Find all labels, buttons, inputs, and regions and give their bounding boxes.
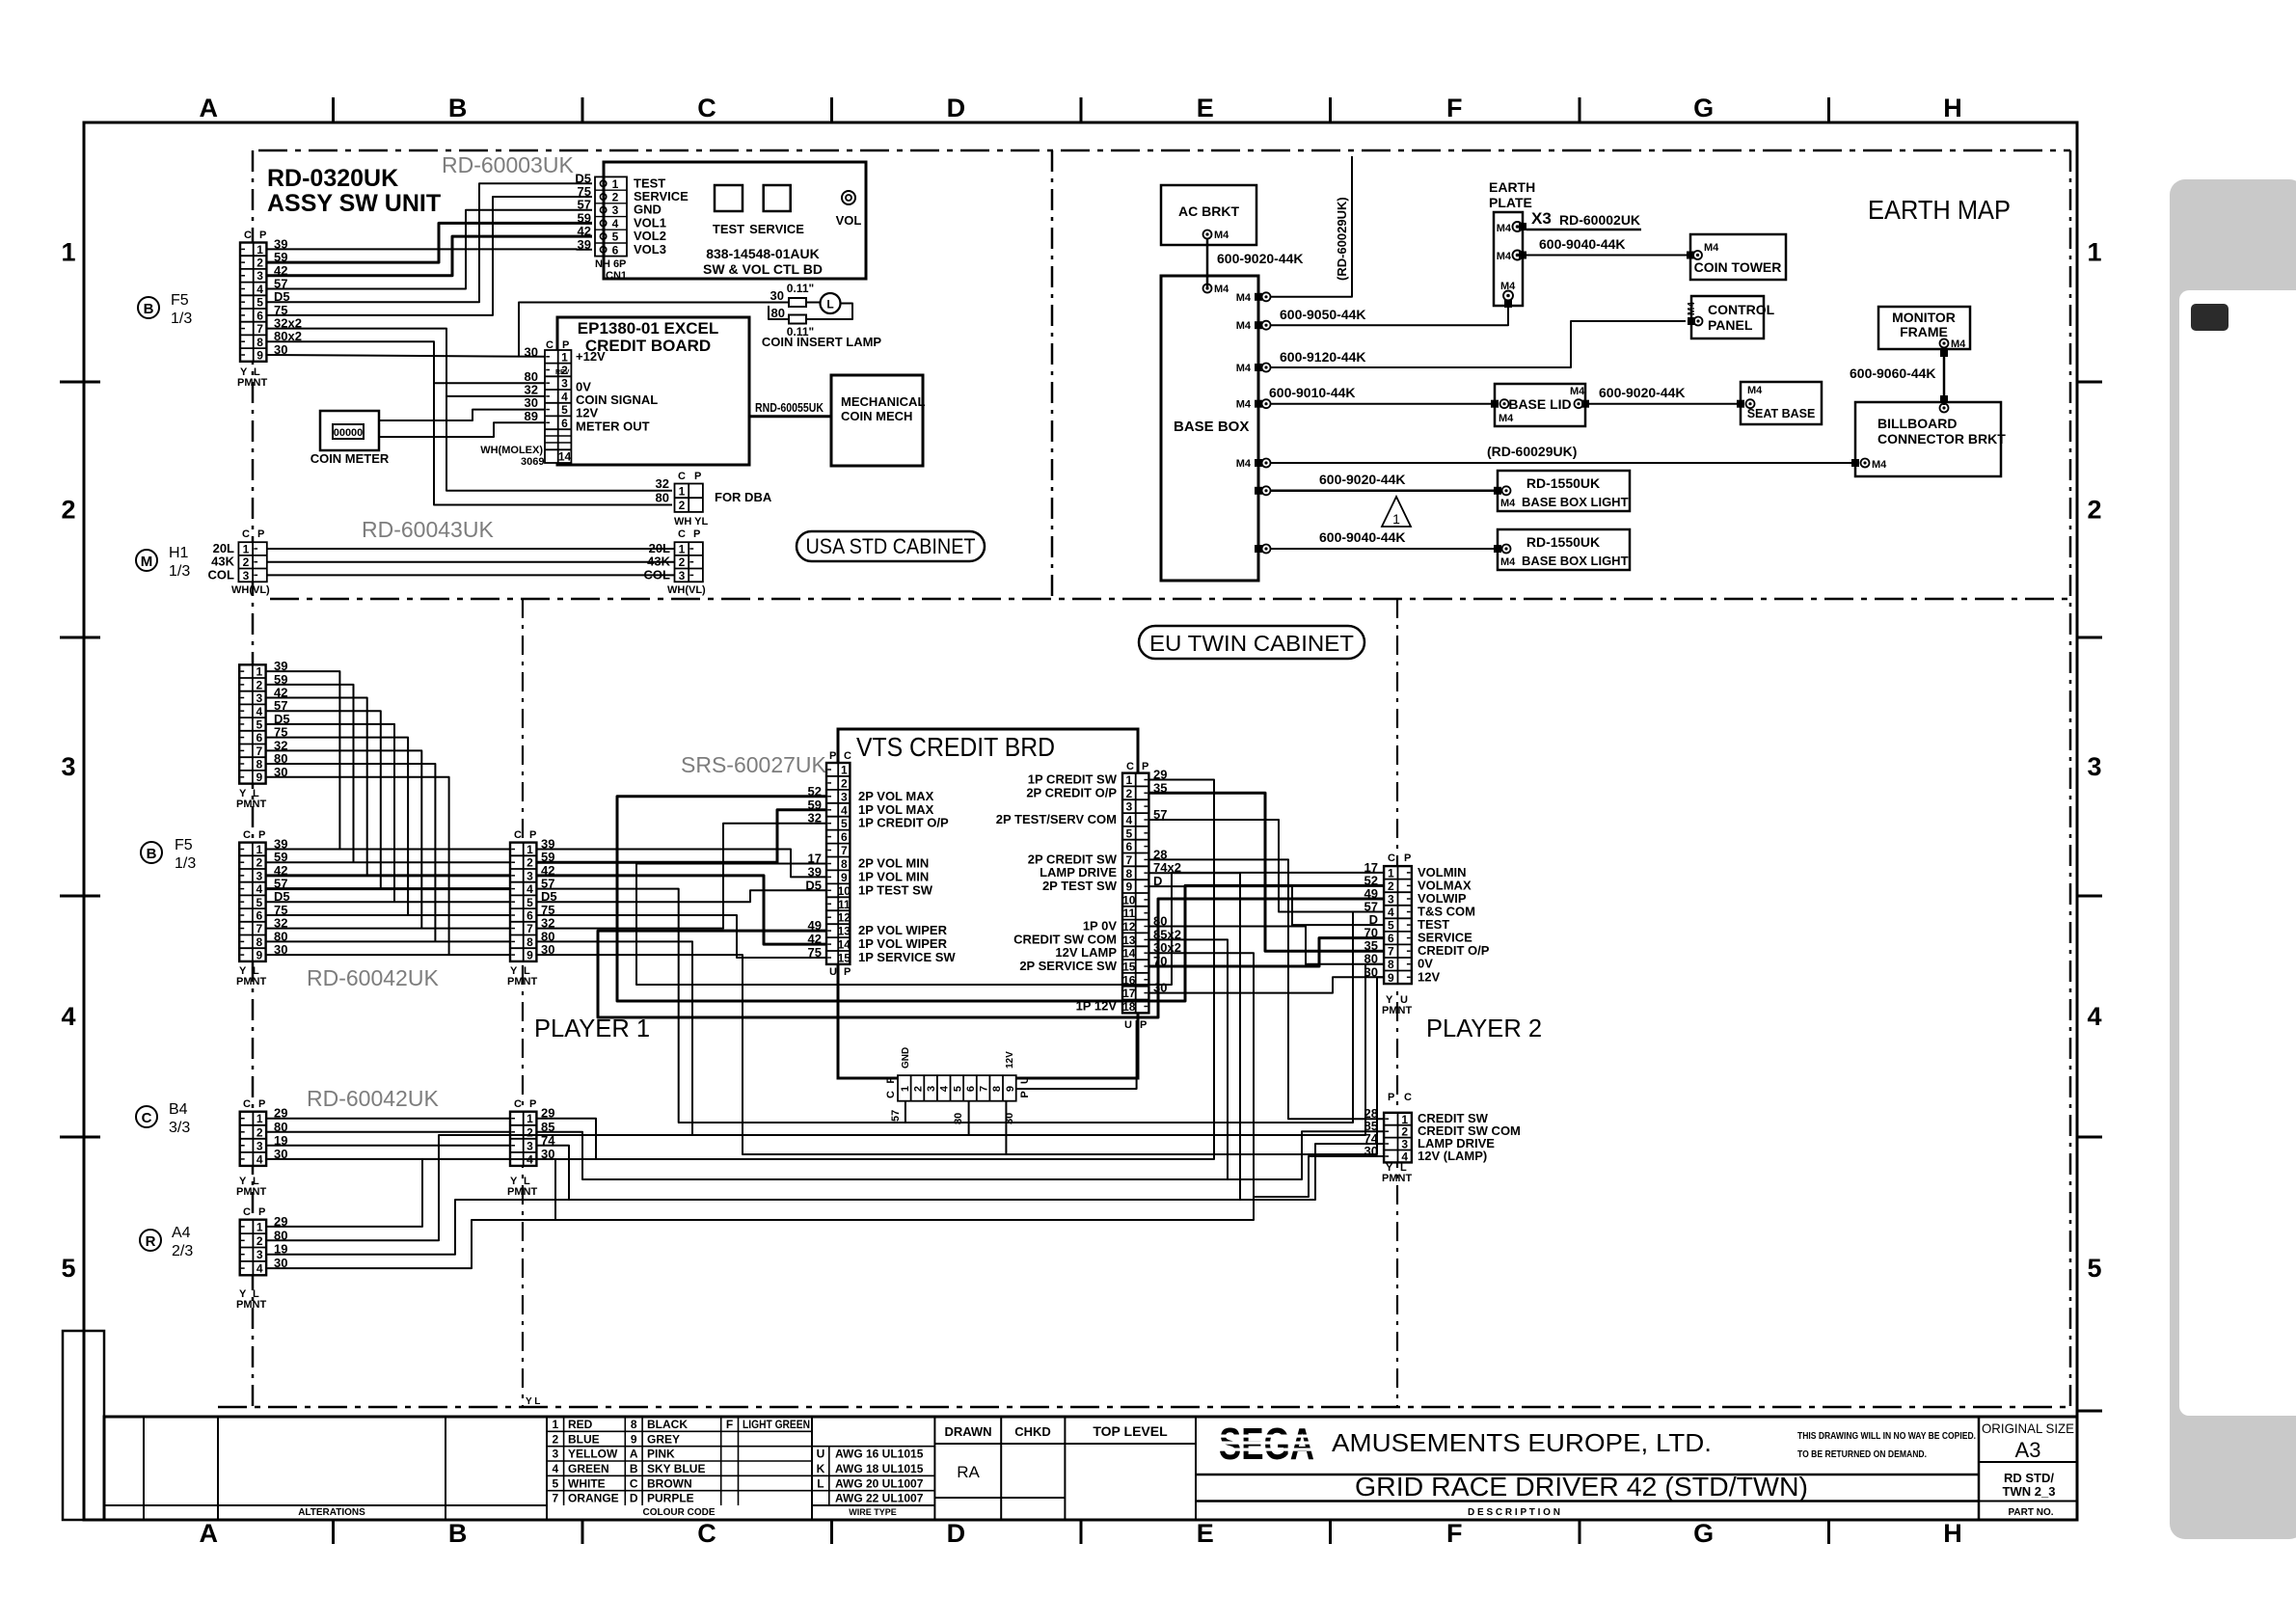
- label USA STD CABINET: [797, 531, 985, 561]
- svg-text:7: 7: [256, 744, 262, 758]
- svg-text:600-9020-44K: 600-9020-44K: [1599, 385, 1686, 400]
- svg-text:U: U: [1124, 1019, 1132, 1031]
- svg-text:H1: H1: [169, 545, 189, 561]
- svg-text:C: C: [1126, 761, 1134, 772]
- svg-text:FOR DBA: FOR DBA: [715, 490, 772, 504]
- svg-text:EU TWIN CABINET: EU TWIN CABINET: [1149, 631, 1354, 656]
- svg-text:4: 4: [561, 390, 568, 403]
- wire 600-9010-44K to base lid: [1270, 403, 1491, 405]
- svg-text:4: 4: [841, 803, 848, 817]
- wire harness row: [267, 901, 510, 903]
- M4 bolt 1 on earth plate: [1519, 223, 1526, 230]
- wire harness row: [267, 914, 510, 916]
- wire 42 mid to VTS left pin14: [536, 876, 826, 944]
- svg-text:YELLOW: YELLOW: [568, 1448, 618, 1461]
- wire 74 net: [536, 873, 1240, 1200]
- wire 28 net staircase: [1148, 859, 1384, 1119]
- wire 600-9120-44K to control panel: [1270, 321, 1686, 367]
- svg-text:15: 15: [1122, 961, 1136, 974]
- svg-text:2P SERVICE SW: 2P SERVICE SW: [1019, 959, 1117, 973]
- wire 600-9050-44K to earth plate: [1270, 302, 1508, 325]
- svg-text:M4: M4: [1499, 413, 1514, 424]
- svg-text:3: 3: [527, 1139, 533, 1152]
- wire 85 net: [536, 939, 1228, 1179]
- svg-text:17: 17: [1122, 987, 1136, 1000]
- svg-text:A: A: [630, 1448, 638, 1461]
- svg-text:G: G: [1693, 1519, 1714, 1548]
- svg-text:B: B: [144, 301, 154, 317]
- svg-text:RD STD/: RD STD/: [2004, 1471, 2054, 1485]
- wire 30 12V net long run: [536, 955, 1384, 1154]
- svg-text:9: 9: [1005, 1086, 1016, 1092]
- svg-text:8: 8: [256, 758, 262, 771]
- svg-text:3: 3: [561, 377, 568, 391]
- svg-text:1: 1: [61, 238, 75, 267]
- svg-text:METER OUT: METER OUT: [576, 419, 650, 433]
- title block outline: [104, 1417, 2077, 1520]
- svg-text:P: P: [529, 1098, 536, 1110]
- svg-text:2: 2: [257, 257, 263, 270]
- wire coin meter to EP1380.6: [379, 422, 545, 437]
- svg-text:1: 1: [257, 243, 263, 257]
- svg-text:B: B: [147, 846, 157, 862]
- svg-text:2: 2: [257, 1125, 263, 1139]
- M4 bolt 2 on earth plate: [1519, 252, 1526, 259]
- svg-text:M4: M4: [1500, 556, 1516, 568]
- box BASE BOX: [1161, 276, 1258, 581]
- svg-text:2P VOL MAX: 2P VOL MAX: [858, 789, 934, 803]
- svg-text:PART NO.: PART NO.: [2008, 1507, 2053, 1518]
- svg-text:C: C: [678, 471, 686, 482]
- svg-text:BASE BOX: BASE BOX: [1174, 419, 1249, 435]
- svg-text:RD-60003UK: RD-60003UK: [442, 152, 574, 177]
- svg-text:C: C: [514, 829, 522, 841]
- svg-text:TOP LEVEL: TOP LEVEL: [1093, 1423, 1168, 1439]
- svg-text:M4: M4: [1500, 281, 1516, 292]
- svg-text:600-9020-44K: 600-9020-44K: [1319, 472, 1406, 487]
- svg-text:1P CREDIT SW: 1P CREDIT SW: [1028, 772, 1118, 787]
- svg-text:COLOUR CODE: COLOUR CODE: [643, 1507, 716, 1518]
- svg-text:32: 32: [656, 476, 669, 491]
- svg-text:12V: 12V: [1005, 1051, 1015, 1069]
- svg-text:P: P: [1142, 761, 1148, 772]
- svg-text:M4: M4: [1236, 458, 1252, 470]
- wire type table: [933, 1417, 935, 1520]
- svg-text:1P CREDIT O/P: 1P CREDIT O/P: [858, 816, 949, 830]
- svg-text:8: 8: [527, 935, 533, 949]
- svg-text:5: 5: [527, 896, 533, 909]
- svg-text:P: P: [562, 339, 569, 351]
- reference bubble B F5 1/3 (EU): [141, 842, 162, 863]
- svg-text:P: P: [529, 829, 536, 841]
- svg-text:2: 2: [552, 1432, 558, 1446]
- svg-text:D: D: [947, 94, 966, 122]
- lamp L coin insert lamp: [821, 293, 841, 313]
- connector VTS right 18-pin: [1122, 773, 1148, 1014]
- svg-text:5: 5: [612, 230, 619, 244]
- wire upper harness fan: [267, 724, 394, 902]
- svg-text:PMNT: PMNT: [507, 976, 537, 988]
- svg-text:AWG 18 UL1015: AWG 18 UL1015: [835, 1462, 924, 1475]
- svg-text:AC BRKT: AC BRKT: [1178, 203, 1239, 219]
- reference bubble B F5 1/3: [138, 297, 159, 318]
- box CONTROL PANEL: [1691, 296, 1764, 338]
- connector CN1 NH 6P: [595, 176, 627, 256]
- svg-text:1: 1: [256, 665, 262, 679]
- svg-text:6: 6: [612, 243, 619, 257]
- title block left dividers: [143, 1417, 145, 1520]
- svg-text:C: C: [546, 339, 554, 351]
- svg-text:3: 3: [679, 569, 686, 582]
- svg-text:2: 2: [527, 856, 533, 870]
- svg-text:GREY: GREY: [647, 1432, 680, 1446]
- svg-text:7: 7: [979, 1086, 990, 1092]
- svg-text:12V: 12V: [1418, 969, 1440, 984]
- wire 12V/30 feed to coin insert lamp: [519, 303, 789, 357]
- svg-text:P: P: [258, 829, 265, 841]
- outer drawing frame: [84, 122, 2077, 1520]
- svg-text:BROWN: BROWN: [647, 1476, 692, 1490]
- svg-text:5: 5: [61, 1254, 75, 1283]
- player 1 boundary vertical x=542: [522, 599, 524, 1407]
- svg-text:5: 5: [561, 403, 568, 417]
- wire 80 net long run: [536, 941, 1384, 1135]
- box BASE LID: [1495, 384, 1585, 426]
- connector H1 left 3-pin: [238, 542, 266, 582]
- svg-text:4: 4: [552, 1462, 558, 1475]
- wire (RD-60029UK) to billboard: [1270, 462, 1851, 464]
- svg-text:3: 3: [243, 569, 250, 582]
- wire upper harness fan: [267, 764, 436, 941]
- region boundary dash-dot top (USA STD / EARTH MAP): [258, 149, 2070, 152]
- svg-text:M4: M4: [1687, 302, 1697, 315]
- svg-text:BLACK: BLACK: [647, 1418, 688, 1431]
- wire harness row: [267, 861, 510, 863]
- wire F5.6 to CN1: [267, 197, 593, 315]
- svg-text:00000: 00000: [334, 427, 364, 439]
- box RD-1550UK BASE BOX LIGHT 2: [1498, 529, 1630, 570]
- svg-text:P: P: [1404, 853, 1411, 864]
- svg-text:ORIGINAL SIZE: ORIGINAL SIZE: [1982, 1421, 2074, 1436]
- svg-text:80: 80: [656, 491, 669, 505]
- svg-text:1/3: 1/3: [169, 563, 190, 580]
- svg-text:B: B: [630, 1462, 638, 1475]
- svg-text:C: C: [243, 1098, 251, 1110]
- wire B4 row: [267, 1145, 510, 1147]
- M4 on AC BRKT: [1203, 230, 1212, 239]
- svg-text:MONITOR: MONITOR: [1892, 310, 1956, 325]
- wire 74 net to P2: [1240, 1144, 1384, 1200]
- wire 80 drop: [968, 1101, 970, 1135]
- svg-text:FRAME: FRAME: [1900, 324, 1948, 339]
- svg-text:SW & VOL CTL BD: SW & VOL CTL BD: [703, 261, 823, 277]
- svg-text:BASE BOX LIGHT: BASE BOX LIGHT: [1522, 495, 1629, 509]
- svg-text:EP1380-01 EXCEL: EP1380-01 EXCEL: [578, 319, 718, 338]
- M4 bolt 3 on earth plate bottom: [1503, 291, 1513, 301]
- wire lamp return 80: [806, 304, 852, 320]
- svg-text:8: 8: [256, 935, 262, 949]
- svg-text:M4: M4: [1570, 386, 1585, 397]
- svg-text:838-14548-01AUK: 838-14548-01AUK: [706, 246, 820, 261]
- wire coin meter to EP1380.5: [379, 410, 545, 420]
- M4 pad on BASE BOX edge: [1255, 321, 1262, 329]
- svg-text:3: 3: [61, 752, 75, 781]
- svg-text:LIGHT GREEN: LIGHT GREEN: [743, 1418, 810, 1431]
- svg-text:1: 1: [679, 485, 686, 499]
- svg-text:SRS-60027UK: SRS-60027UK: [681, 752, 827, 777]
- box RD-1550UK BASE BOX LIGHT 1: [1498, 471, 1630, 511]
- wire 32 mid to VTS left pin5: [536, 824, 826, 929]
- svg-text:M4: M4: [1214, 284, 1229, 295]
- box MONITOR FRAME: [1878, 307, 1970, 349]
- svg-text:P: P: [829, 750, 836, 762]
- svg-text:PINK: PINK: [647, 1448, 675, 1461]
- svg-text:M4: M4: [1214, 230, 1229, 241]
- svg-text:C: C: [243, 829, 251, 841]
- svg-text:1: 1: [1401, 1113, 1408, 1126]
- wire 57 net long run: [536, 889, 1384, 1123]
- svg-text:3: 3: [1388, 893, 1394, 907]
- svg-text:7: 7: [1388, 945, 1394, 959]
- svg-text:600-9040-44K: 600-9040-44K: [1539, 236, 1626, 252]
- svg-text:P: P: [885, 1076, 897, 1083]
- svg-text:8: 8: [257, 336, 263, 349]
- connector B4 left 4-pin: [240, 1112, 266, 1166]
- svg-text:U: U: [1019, 1076, 1031, 1084]
- svg-text:F5: F5: [175, 837, 193, 853]
- wire AC BRKT to BASE BOX 600-9020-44K: [1206, 238, 1209, 288]
- wire harness row: [267, 954, 510, 956]
- svg-text:7: 7: [257, 322, 263, 336]
- svg-text:7: 7: [256, 922, 262, 935]
- svg-text:3: 3: [1125, 800, 1132, 814]
- svg-text:1: 1: [527, 1112, 533, 1125]
- svg-text:F: F: [726, 1418, 733, 1431]
- svg-text:1: 1: [243, 543, 250, 556]
- svg-text:PMNT: PMNT: [1382, 1005, 1412, 1016]
- svg-text:1P 0V: 1P 0V: [1083, 919, 1118, 934]
- svg-text:1: 1: [679, 543, 686, 556]
- svg-text:C: C: [244, 230, 252, 241]
- svg-text:8: 8: [841, 857, 848, 871]
- box COIN TOWER: [1690, 234, 1786, 280]
- connector PLAYER 2 9-pin: [1384, 866, 1412, 984]
- svg-text:K: K: [817, 1462, 825, 1475]
- svg-text:3: 3: [256, 869, 262, 882]
- SERVICE button: [764, 185, 791, 211]
- svg-text:M4: M4: [1236, 363, 1252, 374]
- M4 pad on BASE BOX edge: [1255, 364, 1262, 371]
- wire A4.1 29: [267, 1159, 596, 1227]
- svg-text:L: L: [817, 1476, 824, 1490]
- svg-text:9: 9: [631, 1432, 637, 1446]
- svg-text:6: 6: [841, 830, 848, 844]
- wire 600-9060-44K monitor frame to billboard: [1943, 347, 1946, 405]
- box BILLBOARD CONNECTOR BRKT: [1855, 402, 2001, 476]
- VOL control: [842, 191, 855, 204]
- svg-text:2: 2: [256, 856, 262, 870]
- svg-text:D: D: [630, 1492, 638, 1505]
- svg-text:8: 8: [1388, 958, 1394, 971]
- svg-text:3: 3: [257, 1248, 263, 1261]
- wire F5.2 to CN1: [267, 223, 593, 262]
- wire B4 row: [267, 1131, 510, 1133]
- wire F5.3 to CN1: [267, 236, 593, 276]
- M4 pad on BASE BOX edge: [1255, 459, 1262, 467]
- svg-text:1P SERVICE SW: 1P SERVICE SW: [858, 950, 956, 964]
- svg-text:1: 1: [841, 764, 848, 777]
- svg-text:P: P: [694, 471, 701, 482]
- wire base box to (RD-60029UK) riser: [1270, 156, 1352, 297]
- svg-text:13: 13: [1122, 934, 1136, 947]
- sidebar white page area: [2179, 290, 2296, 1416]
- svg-text:PANEL: PANEL: [1708, 317, 1753, 333]
- svg-text:D: D: [947, 1519, 966, 1548]
- svg-text:M4: M4: [1704, 242, 1719, 254]
- svg-text:A3: A3: [2015, 1438, 2041, 1462]
- svg-text:M4: M4: [1497, 223, 1512, 234]
- svg-text:U: U: [829, 966, 837, 978]
- svg-text:9: 9: [527, 949, 533, 962]
- svg-text:A4: A4: [172, 1225, 191, 1241]
- svg-text:THIS DRAWING WILL IN NO WAY BE: THIS DRAWING WILL IN NO WAY BE COPIED.: [1797, 1430, 1976, 1442]
- fuse 0.11 lower: [789, 315, 806, 324]
- connector B F5 1/3 EU 9-pin: [239, 843, 265, 961]
- svg-text:30: 30: [770, 288, 784, 303]
- svg-text:CHKD: CHKD: [1014, 1424, 1051, 1439]
- svg-text:AWG 16 UL1015: AWG 16 UL1015: [835, 1448, 924, 1461]
- svg-text:H: H: [1943, 94, 1962, 122]
- connector A4 left 4-pin: [240, 1220, 266, 1276]
- svg-text:10: 10: [838, 884, 851, 898]
- svg-text:1: 1: [1392, 511, 1400, 527]
- svg-text:14: 14: [1122, 947, 1136, 961]
- M4 pad on BASE BOX edge: [1255, 487, 1262, 495]
- svg-text:WH(VL): WH(VL): [667, 584, 706, 596]
- wire upper harness fan: [267, 698, 367, 876]
- svg-text:RD-60042UK: RD-60042UK: [307, 1086, 439, 1111]
- svg-text:P: P: [844, 966, 851, 978]
- svg-text:RD-60002UK: RD-60002UK: [1559, 212, 1640, 228]
- svg-text:PMNT: PMNT: [507, 1186, 537, 1198]
- connector FOR DBA: [675, 484, 703, 512]
- wire upper harness fan: [267, 738, 409, 915]
- svg-text:1/3: 1/3: [175, 855, 196, 872]
- svg-text:5: 5: [1388, 919, 1394, 933]
- box MECHANICAL COIN MECH: [831, 375, 923, 466]
- svg-text:12V (LAMP): 12V (LAMP): [1418, 1149, 1487, 1163]
- svg-text:1P VOL MAX: 1P VOL MAX: [858, 802, 934, 817]
- wire upper harness fan: [267, 711, 381, 888]
- svg-text:E: E: [1197, 94, 1214, 122]
- svg-text:1P VOL WIPER: 1P VOL WIPER: [858, 936, 948, 951]
- svg-text:5: 5: [552, 1476, 558, 1490]
- wire A4.3 19: [267, 1200, 569, 1255]
- svg-text:1: 1: [527, 843, 533, 856]
- svg-text:7: 7: [1125, 853, 1132, 867]
- svg-text:3069: 3069: [521, 456, 544, 468]
- svg-text:WH(VL): WH(VL): [231, 584, 270, 596]
- svg-text:14: 14: [558, 450, 572, 464]
- region boundary vertical x=1091 (USA/EARTH split): [1051, 150, 1054, 599]
- svg-text:2: 2: [256, 678, 262, 691]
- svg-text:2P TEST/SERV COM: 2P TEST/SERV COM: [996, 812, 1117, 826]
- svg-text:2: 2: [612, 191, 619, 204]
- svg-text:BLUE: BLUE: [568, 1432, 600, 1446]
- svg-text:L: L: [826, 298, 833, 311]
- wire harness row: [267, 887, 510, 890]
- svg-text:2P VOL WIPER: 2P VOL WIPER: [858, 923, 948, 937]
- svg-text:5: 5: [256, 717, 262, 731]
- wire 17 P2 to VTS left pin8: [636, 864, 1384, 986]
- wire upper harness fan: [267, 685, 354, 862]
- svg-text:12V LAMP: 12V LAMP: [1055, 945, 1117, 960]
- svg-text:600-9010-44K: 600-9010-44K: [1269, 385, 1356, 400]
- svg-text:CONTROL: CONTROL: [1708, 302, 1775, 317]
- wire RND-60055UK: [749, 415, 831, 418]
- svg-text:1: 1: [552, 1418, 558, 1431]
- svg-text:2P CREDIT O/P: 2P CREDIT O/P: [1026, 785, 1117, 799]
- svg-text:9: 9: [841, 871, 848, 884]
- wire 600-9040-44K to base box light 2: [1270, 548, 1495, 550]
- svg-text:RND-60055UK: RND-60055UK: [755, 401, 824, 415]
- svg-text:BASE LID: BASE LID: [1508, 396, 1571, 412]
- svg-text:600-9020-44K: 600-9020-44K: [1217, 251, 1304, 266]
- reference bubble R A4 2/3: [140, 1230, 161, 1251]
- svg-text:WIRE TYPE: WIRE TYPE: [849, 1507, 897, 1517]
- svg-text:5: 5: [2087, 1254, 2101, 1283]
- svg-text:4: 4: [612, 217, 619, 230]
- svg-text:(RD-60029UK): (RD-60029UK): [1487, 444, 1577, 459]
- wire upper harness fan: [267, 777, 449, 955]
- svg-text:VTS CREDIT BRD: VTS CREDIT BRD: [856, 732, 1055, 762]
- svg-text:COIN INSERT LAMP: COIN INSERT LAMP: [762, 335, 882, 349]
- svg-text:ALTERATIONS: ALTERATIONS: [298, 1507, 365, 1518]
- svg-text:R: R: [146, 1233, 156, 1250]
- svg-text:2: 2: [257, 1234, 263, 1248]
- svg-text:1: 1: [256, 843, 262, 856]
- svg-text:4: 4: [1388, 906, 1394, 919]
- wire upper harness fan: [267, 750, 422, 928]
- box AC BRKT: [1161, 185, 1256, 245]
- wire 75 mid to VTS left pin15: [536, 915, 826, 958]
- svg-text:M4: M4: [1236, 320, 1252, 332]
- svg-text:2: 2: [243, 555, 250, 569]
- svg-text:PMNT: PMNT: [1382, 1173, 1412, 1184]
- svg-text:C: C: [1388, 853, 1395, 864]
- wire A4.4 30: [267, 1220, 555, 1268]
- svg-text:7: 7: [552, 1492, 558, 1505]
- svg-text:1P TEST SW: 1P TEST SW: [858, 882, 933, 897]
- svg-text:WHITE: WHITE: [568, 1476, 606, 1490]
- svg-text:6: 6: [256, 909, 262, 923]
- svg-text:B: B: [448, 1519, 468, 1548]
- svg-text:10: 10: [1122, 893, 1136, 907]
- wire 57 drop from bottom connector: [905, 1101, 906, 1123]
- frame column ticks top/bottom: [332, 97, 335, 122]
- wire 85 net to P2: [1228, 1131, 1384, 1179]
- svg-text:3: 3: [552, 1448, 558, 1461]
- wire D VTS to P2: [1148, 886, 1384, 925]
- svg-text:COIN TOWER: COIN TOWER: [1694, 259, 1782, 275]
- wire 80 VTS to P2: [1148, 927, 1384, 964]
- wire 39 mid to VTS left pin9: [536, 850, 826, 878]
- svg-text:GRID RACE DRIVER 42 (STD/TWN): GRID RACE DRIVER 42 (STD/TWN): [1355, 1472, 1808, 1502]
- player 2 boundary vertical x=1449: [1396, 599, 1398, 1407]
- svg-text:SERVICE: SERVICE: [749, 222, 804, 236]
- svg-text:1: 1: [561, 350, 568, 364]
- svg-text:9: 9: [256, 771, 262, 784]
